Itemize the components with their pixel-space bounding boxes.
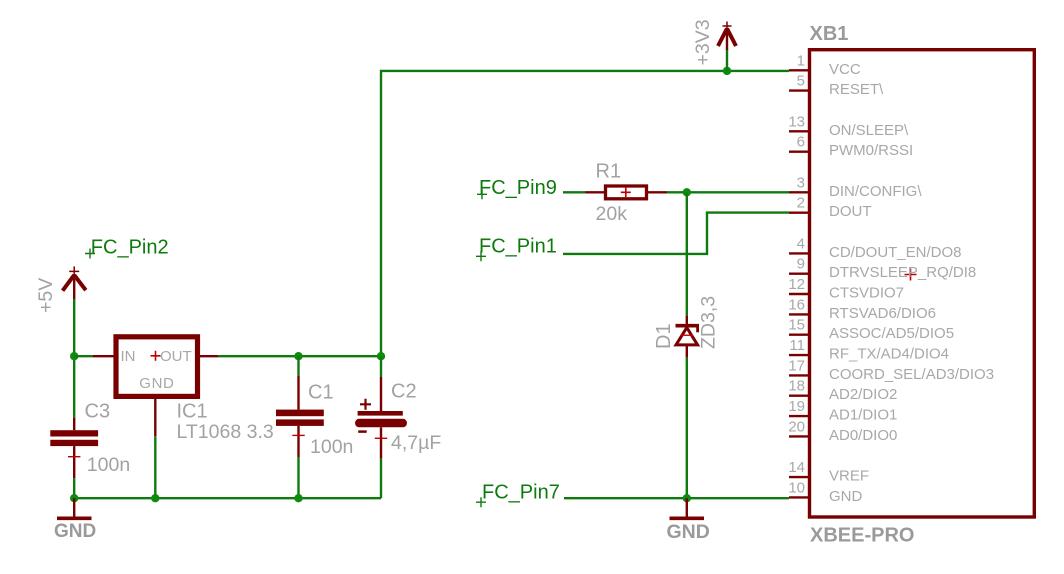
pin 15 ASSOC/AD5/DIO5 — [788, 317, 954, 343]
pin IC1 GND stub — [154, 397, 156, 436]
value ZD3,3 — [698, 296, 720, 349]
svg-text:VCC: VCC — [829, 61, 861, 78]
pin 18 AD2/DIO2 — [788, 378, 897, 404]
svg-text:XBEE-PRO: XBEE-PRO — [810, 525, 914, 547]
svg-text:VREF: VREF — [829, 468, 869, 485]
label R1 — [596, 161, 622, 183]
svg-text:20: 20 — [788, 418, 805, 435]
pin 11 RF_TX/AD4/DIO4 — [789, 337, 949, 363]
svg-text:RTSVAD6/DIO6: RTSVAD6/DIO6 — [829, 305, 936, 322]
label FC_Pin2 — [85, 237, 169, 259]
svg-text:19: 19 — [788, 398, 805, 415]
capacitor C3 — [50, 418, 98, 479]
wire FC_Pin9 to R1 — [563, 191, 586, 193]
svg-text:FC_Pin1: FC_Pin1 — [479, 236, 557, 258]
value LT1068 3.3 — [177, 421, 274, 443]
svg-text:ASSOC/AD5/DIO5: ASSOC/AD5/DIO5 — [829, 325, 954, 342]
wire OUT rail — [218, 355, 381, 357]
svg-text:5: 5 — [797, 73, 805, 90]
value 4,7uF C2 — [391, 432, 441, 454]
origin cross IC1 — [151, 351, 161, 361]
svg-text:ON/SLEEP\: ON/SLEEP\ — [829, 122, 909, 139]
svg-text:GND: GND — [54, 521, 96, 542]
label FC_Pin7 — [476, 482, 560, 508]
svg-text:2: 2 — [797, 195, 805, 212]
pin 2 DOUT — [789, 195, 872, 221]
svg-text:OUT: OUT — [160, 348, 192, 365]
svg-text:GND: GND — [829, 488, 863, 505]
svg-text:18: 18 — [788, 378, 805, 395]
svg-text:14: 14 — [788, 459, 805, 476]
svg-text:100n: 100n — [310, 436, 353, 458]
label GND left — [54, 521, 96, 542]
op-amp IC1 body — [116, 337, 198, 397]
label XB1 — [810, 23, 849, 45]
svg-text:RESET\: RESET\ — [829, 81, 884, 98]
IC XB1 box — [810, 50, 1035, 517]
label IC1 — [177, 401, 208, 423]
power +3V3 arrow — [718, 22, 736, 51]
svg-text:C3: C3 — [85, 401, 111, 423]
svg-text:10: 10 — [788, 479, 805, 496]
pin label OUT — [160, 348, 192, 365]
node GND rail junction left — [70, 494, 78, 502]
resistor R1 — [586, 186, 668, 199]
svg-text:FC_Pin2: FC_Pin2 — [91, 237, 169, 259]
label C1 — [308, 382, 334, 404]
label +3V3 — [692, 19, 714, 65]
svg-text:PWM0/RSSI: PWM0/RSSI — [829, 142, 913, 159]
wire IC1 GND net — [154, 436, 156, 498]
pin 20 AD0/DIO0 — [788, 418, 897, 444]
svg-text:XB1: XB1 — [810, 23, 849, 45]
value 100n C3 — [87, 454, 130, 476]
svg-text:FC_Pin7: FC_Pin7 — [482, 482, 560, 504]
svg-text:+5V: +5V — [35, 278, 57, 313]
wire D1 net upper — [686, 192, 688, 315]
label GND right — [667, 521, 710, 543]
svg-text:DTRVSLEEP_RQ/DI8: DTRVSLEEP_RQ/DI8 — [829, 264, 976, 281]
wire C3 bottom — [73, 478, 75, 498]
label D1 — [653, 323, 675, 349]
node GND rail junction IC1 — [151, 494, 159, 502]
svg-text:COORD_SEL/AD3/DIO3: COORD_SEL/AD3/DIO3 — [829, 366, 994, 383]
label +5V — [35, 278, 57, 313]
capacitor C2 polarized — [355, 356, 407, 498]
svg-text:GND: GND — [667, 521, 710, 543]
node +3V3 junction — [723, 67, 731, 75]
wire bottom GND rail — [74, 497, 381, 499]
svg-text:9: 9 — [797, 256, 805, 273]
pin 6 PWM0/RSSI — [789, 134, 913, 160]
label FC_Pin9 — [477, 177, 557, 199]
value 20k — [596, 203, 628, 225]
wire FC_Pin1 to DOUT — [563, 213, 789, 254]
svg-text:3: 3 — [797, 174, 805, 191]
diode D1 zener — [676, 316, 700, 358]
wire +5V vertical net — [73, 299, 75, 418]
svg-text:4,7µF: 4,7µF — [391, 432, 441, 454]
svg-text:LT1068 3.3: LT1068 3.3 — [177, 421, 274, 443]
pin IC1 IN stub — [93, 355, 115, 357]
svg-text:15: 15 — [788, 317, 805, 334]
node R1 output junction — [683, 188, 691, 196]
pin 13 ON/SLEEP\ — [788, 113, 909, 139]
pin 12 CTSVDIO7 — [788, 276, 904, 302]
pin 1 VCC — [789, 52, 861, 78]
svg-text:FC_Pin9: FC_Pin9 — [479, 177, 557, 199]
svg-text:C2: C2 — [391, 381, 417, 403]
svg-text:12: 12 — [788, 276, 805, 293]
pin 3 DIN/CONFIG\ — [789, 174, 922, 200]
svg-text:6: 6 — [797, 134, 805, 151]
label FC_Pin1 — [476, 236, 557, 262]
svg-text:R1: R1 — [596, 161, 622, 183]
pin label IN — [121, 348, 136, 365]
svg-text:1: 1 — [797, 52, 805, 69]
svg-text:+3V3: +3V3 — [692, 19, 714, 65]
ground symbol left — [57, 498, 92, 518]
svg-text:20k: 20k — [596, 203, 628, 225]
svg-text:AD1/DIO1: AD1/DIO1 — [829, 407, 897, 424]
origin cross XB1 — [905, 269, 917, 281]
svg-text:IC1: IC1 — [177, 401, 208, 423]
svg-text:C1: C1 — [308, 382, 334, 404]
svg-text:RF_TX/AD4/DIO4: RF_TX/AD4/DIO4 — [829, 346, 949, 363]
wire D1 net lower — [686, 358, 688, 499]
label C2 — [391, 381, 417, 403]
svg-text:13: 13 — [788, 113, 805, 130]
pin 9 DTRVSLEEP_RQ/DI8 — [789, 256, 976, 282]
svg-text:CD/DOUT_EN/DO8: CD/DOUT_EN/DO8 — [829, 244, 962, 261]
svg-text:D1: D1 — [653, 323, 675, 349]
svg-text:11: 11 — [789, 337, 805, 354]
node IN junction — [70, 352, 78, 360]
pin 5 RESET\ — [789, 73, 884, 99]
svg-text:AD0/DIO0: AD0/DIO0 — [829, 427, 897, 444]
pin 4 CD/DOUT_EN/DO8 — [789, 235, 962, 261]
value 100n C1 — [310, 436, 353, 458]
wire to IC1 IN — [74, 355, 93, 357]
svg-text:100n: 100n — [87, 454, 130, 476]
pin 10 GND — [788, 479, 862, 505]
node C2 top junction — [377, 352, 385, 360]
pin 16 RTSVAD6/DIO6 — [788, 296, 936, 322]
node GND junction right — [683, 494, 691, 502]
label C3 — [85, 401, 111, 423]
pin IC1 OUT stub — [198, 355, 218, 357]
svg-text:DOUT: DOUT — [829, 203, 872, 220]
svg-text:17: 17 — [788, 357, 805, 374]
svg-text:4: 4 — [797, 235, 805, 252]
wire R1 to pin3 — [667, 191, 789, 193]
node C1 top junction — [294, 352, 302, 360]
pin 17 COORD_SEL/AD3/DIO3 — [788, 357, 994, 383]
wire top rail 3V3 net — [381, 71, 789, 356]
pin 14 VREF — [788, 459, 869, 485]
svg-text:AD2/DIO2: AD2/DIO2 — [829, 386, 897, 403]
value XBEE-PRO — [810, 525, 914, 547]
wire +3V3 stub — [726, 49, 728, 71]
ground symbol right — [670, 498, 705, 518]
svg-text:16: 16 — [788, 296, 805, 313]
capacitor C1 — [276, 356, 324, 498]
node GND rail junction C1 — [294, 494, 302, 502]
svg-text:GND: GND — [139, 375, 174, 392]
svg-text:ZD3,3: ZD3,3 — [698, 296, 720, 349]
pin label GND — [139, 375, 174, 392]
svg-text:DIN/CONFIG\: DIN/CONFIG\ — [829, 183, 922, 200]
power +5V arrow — [63, 266, 86, 299]
pin 19 AD1/DIO1 — [788, 398, 897, 424]
wire FC_Pin7 to GND pin — [564, 497, 789, 499]
svg-text:IN: IN — [121, 348, 136, 365]
svg-text:CTSVDIO7: CTSVDIO7 — [829, 285, 904, 302]
